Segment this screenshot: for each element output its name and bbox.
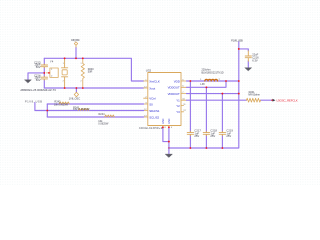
label CDCEL913PW bbox=[139, 127, 163, 130]
wire VDD rail bbox=[187, 80, 239, 82]
capacitor C218 bbox=[203, 131, 209, 136]
ground left bbox=[25, 80, 32, 83]
junction gnd join bbox=[168, 141, 170, 143]
junction col1 bottom bbox=[189, 147, 191, 149]
svg-text:Xout: Xout bbox=[149, 86, 155, 90]
capacitor C213 bbox=[41, 64, 48, 68]
pin numbers crystal Y4 and R240 bbox=[63, 63, 82, 83]
label R244 bbox=[98, 113, 109, 125]
label Y4 bbox=[50, 60, 54, 78]
pin stubs left bbox=[144, 81, 148, 117]
junction gnd pin 8 bbox=[162, 126, 164, 128]
IC U32 CDCEL913 box bbox=[148, 73, 181, 126]
label ABM crystal part bbox=[20, 88, 56, 92]
ferrite bead L38 bbox=[205, 79, 218, 81]
svg-text:Y1: Y1 bbox=[176, 99, 180, 103]
svg-text:1: 1 bbox=[63, 63, 64, 65]
capacitor C219 bbox=[219, 131, 225, 136]
capacitor C216 bbox=[245, 51, 251, 61]
capacitor C214 bbox=[41, 76, 48, 80]
wire ground tee bbox=[28, 73, 44, 80]
resistor R244 bbox=[105, 115, 115, 117]
svg-text:220ohm: 220ohm bbox=[202, 69, 211, 72]
svg-text:Xin/CLK: Xin/CLK bbox=[149, 79, 160, 83]
svg-text:L38: L38 bbox=[200, 83, 205, 86]
label R243 bbox=[73, 106, 90, 111]
svg-text:S0: S0 bbox=[149, 102, 153, 106]
junction power bottom bbox=[75, 87, 77, 89]
pin stubs bottom bbox=[163, 126, 169, 128]
junction left caps bbox=[43, 72, 45, 74]
svg-text:2: 2 bbox=[81, 80, 82, 82]
junction col3 top bbox=[221, 93, 223, 95]
junction col3 bottom bbox=[221, 147, 223, 149]
wire P1V8_USB feed bbox=[35, 103, 144, 117]
svg-text:GND: GND bbox=[168, 118, 171, 124]
net label U3OSC_REFCLK bbox=[271, 98, 298, 102]
junction cap branch bbox=[238, 48, 240, 50]
svg-text:0.0625W: 0.0625W bbox=[98, 122, 109, 125]
svg-text:VCtrl: VCtrl bbox=[149, 97, 156, 101]
junction col2 bottom bbox=[205, 147, 207, 149]
label P1V8_USB top right bbox=[231, 38, 243, 42]
svg-text:1V8_OSC: 1V8_OSC bbox=[71, 39, 80, 42]
junction crystal gnd pin bbox=[48, 72, 50, 74]
junction crystal top bbox=[64, 57, 66, 59]
label C217 bbox=[194, 128, 201, 138]
junction resistor top bbox=[82, 57, 84, 59]
wire cap column 1 bbox=[189, 81, 191, 148]
pin names GND bottom bbox=[162, 118, 171, 124]
pin names right bbox=[168, 79, 181, 114]
svg-text:NR-50ohm: NR-50ohm bbox=[248, 94, 260, 97]
pin stubs right bbox=[181, 81, 187, 112]
junction gnd pin 4 bbox=[168, 126, 170, 128]
wire Xout bottom rail bbox=[44, 87, 143, 89]
wire VDDOUT1 tie bbox=[187, 81, 227, 87]
wire IC GND pins down bbox=[163, 127, 169, 148]
junction resistor bottom bbox=[82, 87, 84, 89]
svg-text:GND: GND bbox=[162, 118, 165, 124]
crystal Y4 box bbox=[46, 68, 58, 77]
wire Y1 output bbox=[187, 99, 273, 101]
wire SCL bbox=[47, 116, 143, 118]
junction crystal bottom bbox=[64, 87, 66, 89]
pin names left bbox=[149, 79, 160, 119]
wire S0 bbox=[47, 103, 143, 105]
power port 1V8_OSC top bbox=[71, 39, 80, 58]
wire P1V8 main vertical and gnd rail bbox=[169, 42, 239, 148]
resistor R242 bbox=[59, 102, 69, 104]
svg-text:SCL/S2: SCL/S2 bbox=[149, 115, 159, 119]
svg-text:SDA/S1: SDA/S1 bbox=[149, 109, 160, 113]
ground bottom bbox=[168, 148, 170, 154]
label C218 bbox=[210, 128, 217, 138]
wire left cap column bbox=[43, 58, 45, 88]
junction col2 top bbox=[205, 86, 207, 88]
junction split bbox=[46, 110, 48, 112]
svg-text:2: 2 bbox=[63, 80, 64, 82]
svg-text:VDD: VDD bbox=[174, 79, 180, 83]
svg-text:R244: R244 bbox=[99, 113, 106, 116]
svg-text:U3OSC_REFCLK: U3OSC_REFCLK bbox=[276, 98, 298, 102]
svg-text:50R: 50R bbox=[88, 70, 93, 73]
junction power top bbox=[75, 57, 77, 59]
svg-text:VDDOUT: VDDOUT bbox=[168, 92, 180, 96]
junction ferrite supply bbox=[238, 80, 240, 82]
label P1V8_USB left bbox=[25, 100, 42, 103]
label R241 bbox=[248, 91, 260, 97]
label R240 bbox=[88, 68, 95, 73]
svg-text:10k 0.0625W: 10k 0.0625W bbox=[54, 104, 69, 107]
wire cap column 2 bbox=[205, 87, 207, 148]
wire cap column 3 bbox=[221, 94, 223, 148]
label L38 bbox=[200, 69, 223, 86]
resistor R243 bbox=[78, 108, 89, 110]
svg-text:1V8_OSC: 1V8_OSC bbox=[69, 98, 80, 101]
label R242 bbox=[54, 100, 69, 106]
label C216 bbox=[252, 53, 259, 63]
label C219 bbox=[226, 128, 233, 138]
label U32 bbox=[146, 69, 152, 73]
svg-text:Y3: Y3 bbox=[176, 110, 180, 114]
svg-text:Y2: Y2 bbox=[176, 104, 180, 108]
wire cap branch bbox=[239, 49, 249, 68]
pin numbers right bbox=[182, 79, 186, 112]
svg-text:BLM18SG221TN1D: BLM18SG221TN1D bbox=[202, 72, 224, 75]
resistor R240 bbox=[81, 58, 84, 88]
label C213 bbox=[34, 60, 41, 69]
pin numbers left bbox=[144, 79, 147, 117]
svg-text:1: 1 bbox=[81, 63, 82, 65]
ground top right bbox=[245, 68, 252, 71]
wire VDDOUT2 bbox=[187, 93, 239, 95]
wire Xin top rail bbox=[44, 58, 143, 81]
junction VDDOUT2 bbox=[238, 93, 240, 95]
crystal resonator glyph bbox=[62, 58, 68, 88]
label C214 bbox=[34, 73, 41, 82]
power port 1V8_OSC bottom bbox=[69, 88, 80, 101]
capacitor C217 bbox=[187, 131, 193, 136]
junction gnd rail bbox=[168, 147, 170, 149]
junction col1 top bbox=[189, 80, 191, 82]
resistor R241 bbox=[247, 98, 261, 102]
svg-text:R242: R242 bbox=[54, 100, 61, 103]
svg-text:U32: U32 bbox=[146, 69, 152, 73]
svg-text:CDCEL913PW+R: CDCEL913PW+R bbox=[139, 127, 163, 130]
svg-text:10k 0.0625W: 10k 0.0625W bbox=[73, 108, 90, 111]
pin numbers bottom bbox=[165, 127, 173, 129]
junction VDDOUT1 tie bbox=[225, 80, 227, 82]
svg-text:VDDOUT: VDDOUT bbox=[168, 86, 180, 90]
